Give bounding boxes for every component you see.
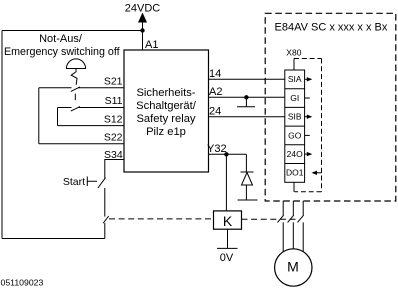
- svg-text:Schaltgerät/: Schaltgerät/: [136, 100, 197, 112]
- wire S12: [58, 125, 125, 127]
- actuator dash link between contacts: [74, 94, 76, 101]
- mechanical link dashed K to main contacts: [242, 218, 298, 220]
- contact e-stop channel 2 (S11-S12): [71, 107, 80, 112]
- stub below DO1: [293, 182, 295, 191]
- svg-text:X80: X80: [286, 47, 301, 57]
- X80 dashed bracket bottom: [295, 191, 322, 193]
- wire pin 24 to SIB: [209, 116, 285, 118]
- svg-text:Y32: Y32: [207, 143, 227, 155]
- contact e-stop channel 1 (S21-S22): [71, 87, 80, 92]
- svg-text:S11: S11: [105, 95, 123, 107]
- diode V1 cathode bar: [241, 171, 254, 173]
- 0V stub from A2: [245, 97, 247, 106]
- wire S11: [58, 107, 125, 109]
- 0V rail bar under A2: [237, 106, 255, 108]
- wire pin A2 to GI: [209, 96, 285, 98]
- wire S22: [39, 143, 124, 145]
- svg-text:0V: 0V: [220, 252, 234, 264]
- svg-text:K: K: [223, 213, 233, 229]
- svg-text:E84AV SC x xxx x x Bx: E84AV SC x xxx x x Bx: [275, 22, 388, 34]
- 0V rail bar under K: [217, 247, 238, 249]
- svg-text:24O: 24O: [287, 149, 303, 159]
- arrow out of 24O: [305, 153, 307, 155]
- svg-text:Start: Start: [63, 176, 85, 188]
- svg-text:Sicherheits-: Sicherheits-: [136, 87, 195, 99]
- svg-text:GO: GO: [288, 130, 302, 140]
- junction dot on Y32 wire: [224, 152, 228, 156]
- svg-text:M: M: [287, 259, 299, 275]
- 24VDC arrow head: [138, 13, 147, 23]
- svg-text:S34: S34: [104, 149, 123, 161]
- safety relay U1 box: [124, 50, 209, 172]
- contactor main contact V: [288, 215, 294, 222]
- svg-text:SIB: SIB: [288, 112, 302, 122]
- wire diode to 0V: [245, 185, 247, 200]
- X80 dashed bracket top: [294, 58, 322, 60]
- tick at GO: [305, 134, 310, 136]
- svg-text:A2: A2: [209, 86, 222, 98]
- motor wire V: [292, 201, 294, 249]
- svg-text:DO1: DO1: [286, 168, 304, 178]
- svg-text:A1: A1: [145, 39, 158, 51]
- svg-text:Pilz e1p: Pilz e1p: [146, 126, 186, 138]
- motor M1 circle: [275, 249, 312, 286]
- svg-text:S22: S22: [104, 132, 123, 144]
- svg-text:Emergency switching off: Emergency switching off: [4, 46, 120, 58]
- svg-text:Not-Aus/: Not-Aus/: [39, 33, 83, 45]
- wire S21: [39, 87, 124, 89]
- X80 stub to terminal strip: [293, 59, 295, 71]
- svg-text:GI: GI: [290, 93, 299, 103]
- svg-text:051109023: 051109023: [1, 278, 44, 288]
- wire Start contact to S34: [105, 160, 124, 179]
- junction dot on A2 wire: [244, 95, 248, 99]
- wire Y32 down to contactor coil K: [225, 154, 227, 211]
- wire pin 14 to SIA: [209, 78, 285, 80]
- wire pin Y32: [209, 153, 247, 155]
- wire K to 0V: [227, 229, 229, 248]
- wire Y32 branch to diode: [245, 154, 247, 172]
- terminal labels: [286, 74, 304, 178]
- Start button actuator: [87, 177, 97, 187]
- contactor main contact W: [298, 215, 304, 222]
- emergency stop mushroom button: [66, 59, 85, 69]
- contactor main contact U: [278, 215, 284, 222]
- contactor coil K box: [214, 211, 242, 229]
- motor wire W: [302, 201, 304, 252]
- wire bottom rail: [2, 238, 105, 240]
- wire aux contact to Start contact: [104, 188, 106, 217]
- wire left rail down: [1, 31, 3, 239]
- wire S22 loop left vertical: [38, 88, 40, 144]
- arrow into DO1: [317, 172, 322, 174]
- contact K auxiliary (feedback loop): [103, 216, 109, 223]
- wire up to K aux contact: [104, 223, 106, 239]
- svg-text:24: 24: [209, 106, 221, 118]
- arrow out of SIB: [305, 116, 307, 118]
- junction dot at 24V rail: [140, 28, 144, 32]
- motor wire U: [282, 201, 284, 252]
- mechanical link dashed K to aux contact: [109, 218, 214, 220]
- tick at GI: [305, 97, 310, 99]
- wire 24V rail to left: [2, 30, 143, 32]
- diode V1 triangle: [242, 173, 253, 186]
- emergency stop actuator zigzag: [71, 69, 77, 85]
- wire 24VDC down to A1: [142, 22, 144, 51]
- svg-text:S21: S21: [104, 76, 123, 88]
- arrow out of SIA: [305, 78, 307, 80]
- svg-text:14: 14: [209, 68, 221, 80]
- svg-text:SIA: SIA: [288, 74, 302, 84]
- X80 dashed bracket right: [321, 59, 323, 192]
- contact Start push-button S3: [98, 178, 106, 188]
- wire S12 loop left vertical: [57, 108, 59, 126]
- safety relay text: [136, 87, 197, 138]
- svg-text:S12: S12: [104, 113, 123, 125]
- terminal strip X80: [285, 70, 305, 182]
- svg-text:Safety relay: Safety relay: [136, 113, 195, 125]
- inverter E84AV dashed enclosure: [265, 13, 396, 201]
- 0V rail bar under diode: [238, 199, 258, 201]
